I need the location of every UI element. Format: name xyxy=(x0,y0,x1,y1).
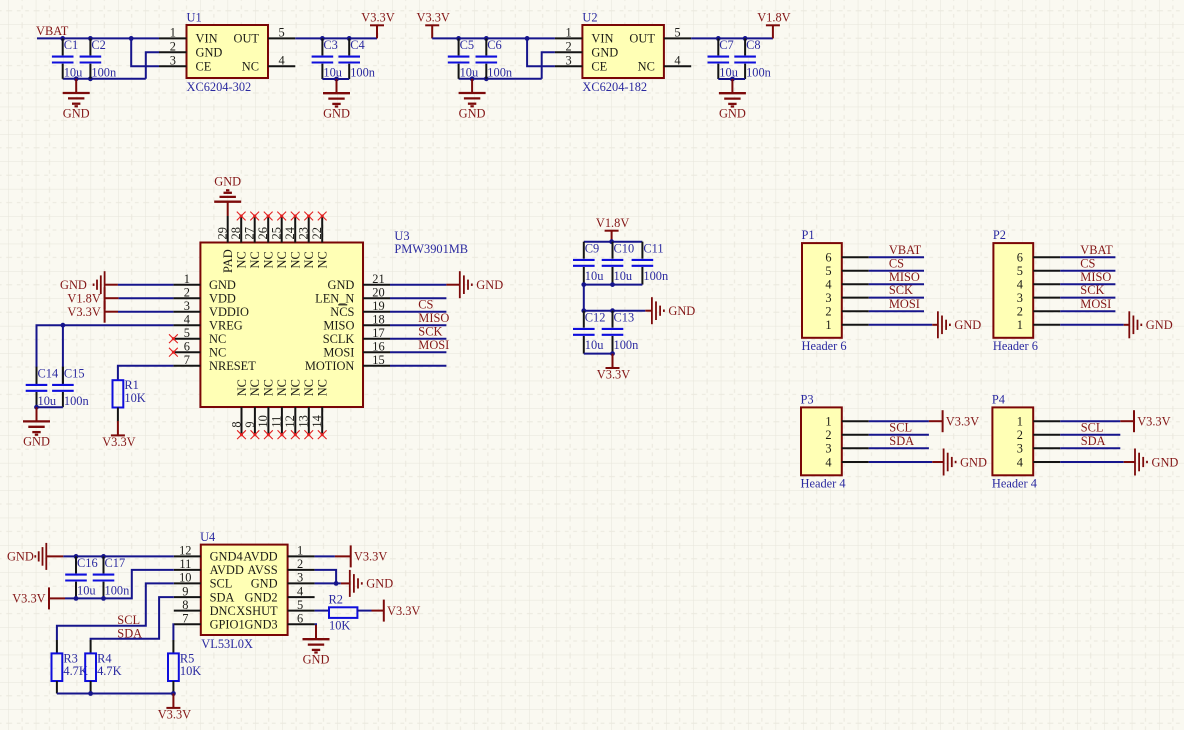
ground GND at P4 xyxy=(1124,449,1179,476)
svg-text:4: 4 xyxy=(278,54,284,68)
capacitor C8 100n xyxy=(734,38,771,80)
svg-text:27: 27 xyxy=(243,227,257,239)
svg-text:GND: GND xyxy=(7,550,34,564)
junction GND node xyxy=(334,581,339,586)
svg-text:10u: 10u xyxy=(460,66,479,80)
no-ERC marker pin 5 xyxy=(169,334,178,343)
svg-text:NC: NC xyxy=(248,251,262,268)
wire U3 LEN_N xyxy=(390,297,446,299)
svg-text:CS: CS xyxy=(418,298,433,312)
junction C4 top xyxy=(347,36,352,41)
wire net MOSI at P1 xyxy=(869,310,924,312)
junction C16 bottom xyxy=(74,596,79,601)
svg-text:V3.3V: V3.3V xyxy=(12,592,45,606)
svg-text:SCL: SCL xyxy=(889,420,912,434)
ground GND under U4 xyxy=(303,625,330,667)
wire net MOSI xyxy=(390,351,446,353)
P3 pin 2 xyxy=(825,428,868,442)
connector P1 Header 6 xyxy=(802,228,847,353)
svg-text:3: 3 xyxy=(565,54,571,68)
svg-text:1: 1 xyxy=(825,415,831,429)
net label SCL xyxy=(117,613,140,627)
junction GND rail left xyxy=(581,308,586,313)
connector P4 Header 4 xyxy=(992,392,1037,490)
net label MOSI xyxy=(418,338,449,352)
U3 pin 5 xyxy=(173,326,200,340)
net label VBAT xyxy=(1080,243,1113,257)
U2 pin 1 xyxy=(555,26,583,40)
junction C6 bottom xyxy=(484,76,489,81)
svg-text:4: 4 xyxy=(825,455,831,469)
svg-text:SCL: SCL xyxy=(1081,420,1104,434)
wire net SCK at P2 xyxy=(1060,297,1115,299)
svg-text:2: 2 xyxy=(825,305,831,319)
wire U3 pin 21 GND xyxy=(390,284,446,286)
power port V3.3V xyxy=(1120,410,1170,432)
IC U1 XC6204-302 xyxy=(187,11,269,94)
resistor R4 4.7K xyxy=(85,651,121,681)
junction R5 bottom xyxy=(171,691,176,696)
no-ERC marker pin 6 xyxy=(169,348,178,357)
net label MISO xyxy=(1080,270,1111,284)
svg-text:5: 5 xyxy=(297,598,303,612)
svg-text:C17: C17 xyxy=(105,556,126,570)
svg-text:SDA: SDA xyxy=(889,434,914,448)
capacitor C17 100n xyxy=(93,556,130,598)
U4 pin 2 xyxy=(288,557,315,571)
svg-text:1: 1 xyxy=(184,272,190,286)
capacitor C2 100n xyxy=(80,38,117,80)
P4 pin 3 xyxy=(1017,442,1060,456)
svg-text:5: 5 xyxy=(674,26,680,40)
svg-text:XSHUT: XSHUT xyxy=(236,604,278,618)
U4 pin 9 xyxy=(174,584,201,598)
capacitor C3 10u xyxy=(312,38,342,80)
junction C13 top xyxy=(610,308,615,313)
U2 pin 4 xyxy=(664,54,691,68)
wire U4 pin 1 xyxy=(315,555,335,557)
svg-text:10: 10 xyxy=(179,571,191,585)
power port V3.3V xyxy=(929,410,979,432)
U3 pin 18 xyxy=(363,312,390,326)
svg-text:NC: NC xyxy=(262,379,276,396)
svg-text:2: 2 xyxy=(565,40,571,54)
connector P3 Header 4 xyxy=(801,392,846,490)
junction C17 bottom xyxy=(101,596,106,601)
svg-text:10K: 10K xyxy=(329,618,350,632)
U3 pin 16 xyxy=(363,339,390,353)
capacitor C9 10u xyxy=(573,241,603,284)
U4 pin 10 xyxy=(174,571,201,585)
junction C6 top xyxy=(484,36,489,41)
svg-text:13: 13 xyxy=(297,415,311,427)
svg-text:SCK: SCK xyxy=(1080,283,1104,297)
svg-text:11: 11 xyxy=(179,557,191,571)
svg-text:NC: NC xyxy=(209,345,226,359)
svg-text:C10: C10 xyxy=(614,241,635,255)
svg-text:100n: 100n xyxy=(614,338,639,352)
svg-text:20: 20 xyxy=(372,285,384,299)
U3 pin 26 xyxy=(256,216,276,269)
net label SDA xyxy=(1081,434,1106,448)
wire U3 VREG to C14 xyxy=(37,325,174,385)
capacitor C13 100n xyxy=(602,310,639,353)
U4 pin 11 xyxy=(174,557,201,571)
svg-text:1: 1 xyxy=(297,544,303,558)
svg-text:C16: C16 xyxy=(77,556,98,570)
wire U4 AVSS to GND xyxy=(315,570,337,584)
svg-text:100n: 100n xyxy=(350,66,375,80)
svg-text:C11: C11 xyxy=(643,241,663,255)
svg-text:VIN: VIN xyxy=(591,32,613,46)
svg-text:6: 6 xyxy=(184,339,190,353)
svg-text:GND: GND xyxy=(323,107,350,121)
wire net VBAT at P1 xyxy=(869,256,924,258)
svg-text:8: 8 xyxy=(182,598,188,612)
svg-text:9: 9 xyxy=(182,584,188,598)
wire net SCK xyxy=(390,338,446,340)
junction C16 top xyxy=(74,554,79,559)
wire output ground rail xyxy=(718,78,745,80)
svg-text:V3.3V: V3.3V xyxy=(354,550,387,564)
U3 pin 8 xyxy=(229,379,249,435)
svg-text:SCK: SCK xyxy=(889,283,913,297)
svg-text:NC: NC xyxy=(235,379,249,396)
wire SCL net xyxy=(57,583,174,640)
svg-text:V1.8V: V1.8V xyxy=(67,292,100,306)
svg-text:MISO: MISO xyxy=(889,270,920,284)
svg-text:V3.3V: V3.3V xyxy=(597,367,630,381)
U3 pin 11 xyxy=(270,379,290,435)
junction C15 branch xyxy=(61,323,66,328)
svg-text:10: 10 xyxy=(256,415,270,427)
ground GND at P2 xyxy=(1124,311,1173,338)
U3 pin 14 xyxy=(310,379,330,435)
svg-text:100n: 100n xyxy=(643,269,668,283)
U3 pin 10 xyxy=(256,379,276,435)
power port V3.3V xyxy=(67,301,118,323)
P2 pin 5 xyxy=(1017,264,1060,278)
capacitor C6 100n xyxy=(476,38,513,80)
svg-text:C1: C1 xyxy=(64,38,78,52)
svg-text:11: 11 xyxy=(270,416,284,428)
svg-text:VIN: VIN xyxy=(196,32,218,46)
svg-text:C4: C4 xyxy=(350,38,364,52)
svg-text:12: 12 xyxy=(179,544,191,558)
wire ground rail xyxy=(459,78,542,80)
wire P4 pin 4 GND xyxy=(1060,461,1124,463)
capacitor C12 10u xyxy=(573,310,605,353)
U3 pin 2 xyxy=(173,285,200,299)
wire VBAT to U1 pin 1 xyxy=(37,37,159,39)
net label MISO xyxy=(889,270,920,284)
wire U2 OUT to V1.8V xyxy=(691,37,773,39)
U4 pin 12 xyxy=(174,544,201,558)
junction ground rail xyxy=(470,76,475,81)
junction C8 top xyxy=(743,36,748,41)
no-ERC marker pin 24 xyxy=(291,212,300,221)
svg-text:6: 6 xyxy=(1017,251,1023,265)
resistor R5 10K xyxy=(168,651,201,681)
svg-text:3: 3 xyxy=(297,571,303,585)
svg-text:OUT: OUT xyxy=(234,32,260,46)
R3 upper lead xyxy=(56,640,58,653)
svg-text:V1.8V: V1.8V xyxy=(596,216,629,230)
P4 pin 1 xyxy=(1017,415,1060,429)
svg-text:GND: GND xyxy=(366,577,393,591)
svg-text:MOSI: MOSI xyxy=(418,338,449,352)
wire U4 XSHUT to R2 xyxy=(315,610,329,612)
U3 pin 17 xyxy=(363,326,390,340)
svg-text:P1: P1 xyxy=(802,228,815,242)
net label SCK xyxy=(889,283,913,297)
svg-text:GPIO1: GPIO1 xyxy=(210,618,245,632)
svg-text:GND: GND xyxy=(591,46,618,60)
IC U4 VL53L0X xyxy=(200,530,288,651)
svg-text:5: 5 xyxy=(825,264,831,278)
wire V3.3V to U4 AVDD pin 11 xyxy=(65,570,174,599)
svg-text:SCLK: SCLK xyxy=(323,332,355,346)
svg-text:1: 1 xyxy=(170,26,176,40)
svg-text:GND: GND xyxy=(63,106,90,120)
wire net MISO at P1 xyxy=(869,283,924,285)
resistor R3 4.7K xyxy=(52,651,88,681)
svg-text:VBAT: VBAT xyxy=(889,243,922,257)
svg-text:2: 2 xyxy=(1017,428,1023,442)
ground GND under C7/C8 xyxy=(719,79,746,121)
svg-text:16: 16 xyxy=(372,339,384,353)
svg-text:P4: P4 xyxy=(992,392,1005,406)
ground GND mid bank xyxy=(645,297,695,324)
power port V3.3V xyxy=(335,545,387,567)
R5 upper lead xyxy=(172,640,174,653)
svg-text:GND: GND xyxy=(960,455,987,469)
svg-text:29: 29 xyxy=(216,227,230,239)
junction C1 top xyxy=(60,36,65,41)
U3 pin 4 xyxy=(173,312,200,326)
svg-text:12: 12 xyxy=(283,415,297,427)
svg-text:10u: 10u xyxy=(38,394,57,408)
power port V3.3V xyxy=(361,11,394,39)
no-ERC marker pin 23 xyxy=(304,212,313,221)
U4 pin 7 xyxy=(174,612,201,626)
ground GND under C5/C6 xyxy=(459,79,486,121)
net label CS xyxy=(889,256,904,270)
net label SCK xyxy=(1080,283,1104,297)
no-ERC marker pin 25 xyxy=(277,212,286,221)
wire net MISO at P2 xyxy=(1060,283,1115,285)
net label MISO xyxy=(418,311,449,325)
resistor R1 10K xyxy=(113,378,146,407)
junction mid rail left xyxy=(581,282,586,287)
wire V3.3V rail xyxy=(584,353,613,355)
svg-text:MOSI: MOSI xyxy=(1080,297,1111,311)
net label MOSI xyxy=(889,297,920,311)
U1 pin 1 xyxy=(159,26,187,40)
wire down to C15 xyxy=(62,325,64,385)
svg-text:V1.8V: V1.8V xyxy=(757,11,790,25)
net label SDA xyxy=(117,627,142,641)
svg-text:GND4: GND4 xyxy=(210,550,243,564)
U3 pin 23 xyxy=(297,216,317,269)
svg-text:U1: U1 xyxy=(187,11,202,25)
wire SDA net xyxy=(91,597,174,640)
junction at CE branch xyxy=(525,36,530,41)
wire net SCK at P1 xyxy=(869,297,924,299)
R4 upper lead xyxy=(90,640,92,653)
no-ERC marker pin 9 xyxy=(251,430,260,439)
wire GND to U3 pin 1 xyxy=(118,284,173,286)
wire net VBAT at P2 xyxy=(1060,256,1115,258)
svg-text:GND: GND xyxy=(668,304,695,318)
no-ERC marker pin 26 xyxy=(264,212,273,221)
wire C14-C15 ground rail xyxy=(37,406,63,408)
svg-text:NC: NC xyxy=(262,251,276,268)
svg-text:CE: CE xyxy=(591,60,607,74)
svg-text:SDA: SDA xyxy=(117,627,142,641)
svg-text:19: 19 xyxy=(372,299,384,313)
svg-text:VL53L0X: VL53L0X xyxy=(201,637,253,651)
wire U2 GND pin 2 down xyxy=(542,52,555,79)
wire net MOSI at P2 xyxy=(1060,310,1115,312)
U3 pin 27 xyxy=(243,216,263,269)
svg-text:7: 7 xyxy=(184,353,190,367)
U3 pin 28 xyxy=(229,216,249,269)
svg-text:XC6204-302: XC6204-302 xyxy=(187,80,252,94)
svg-text:V3.3V: V3.3V xyxy=(387,604,420,618)
ground GND under C3/C4 xyxy=(323,79,350,121)
U2 pin 5 xyxy=(664,26,691,40)
svg-text:C7: C7 xyxy=(719,38,733,52)
svg-text:23: 23 xyxy=(297,227,311,239)
capacitor C15 100n xyxy=(52,366,89,408)
svg-text:18: 18 xyxy=(372,312,384,326)
wire net MISO xyxy=(390,324,446,326)
U3 pin 21 xyxy=(363,272,390,286)
svg-text:1: 1 xyxy=(1017,415,1023,429)
svg-text:9: 9 xyxy=(243,421,257,427)
junction C3 top xyxy=(320,36,325,41)
U3 pin 12 xyxy=(283,379,303,435)
svg-text:5: 5 xyxy=(184,326,190,340)
svg-text:LEN_N: LEN_N xyxy=(315,291,354,305)
R3 lower lead xyxy=(56,681,58,694)
wire down to GND rail xyxy=(583,285,585,311)
svg-text:NC: NC xyxy=(316,251,330,268)
svg-text:MISO: MISO xyxy=(1080,270,1111,284)
wire V3.3V to U3 pin 3 xyxy=(118,311,173,313)
net label VBAT xyxy=(36,24,69,38)
svg-text:21: 21 xyxy=(372,272,384,286)
svg-text:SDA: SDA xyxy=(1081,434,1106,448)
svg-text:10K: 10K xyxy=(180,664,201,678)
capacitor C10 10u xyxy=(602,241,634,284)
P1 pin 2 xyxy=(825,305,868,319)
svg-text:NC: NC xyxy=(235,251,249,268)
power port V3.3V xyxy=(158,694,191,722)
capacitor C4 100n xyxy=(338,38,375,80)
R5 lower lead xyxy=(172,681,174,694)
svg-text:C12: C12 xyxy=(585,310,606,324)
ground GND at U3 pin 21 xyxy=(446,271,503,298)
junction output ground rail xyxy=(730,77,735,82)
svg-text:10K: 10K xyxy=(124,391,145,405)
svg-text:CS: CS xyxy=(1080,256,1095,270)
wire V1.8V rail xyxy=(584,241,643,243)
junction C7 top xyxy=(716,36,721,41)
P2 pin 6 xyxy=(1017,251,1060,265)
junction C17 top xyxy=(101,554,106,559)
svg-text:2: 2 xyxy=(170,40,176,54)
P4 pin 2 xyxy=(1017,428,1060,442)
U3 pin 25 xyxy=(270,216,290,269)
U4 pin 1 xyxy=(288,544,315,558)
wire to U1 CE pin 3 xyxy=(131,38,159,66)
svg-text:VREG: VREG xyxy=(209,318,243,332)
svg-text:MOSI: MOSI xyxy=(323,345,354,359)
svg-text:GND: GND xyxy=(303,653,330,667)
svg-text:24: 24 xyxy=(283,227,297,239)
U3 pin 24 xyxy=(283,216,303,269)
svg-text:NC: NC xyxy=(275,379,289,396)
connector P2 Header 6 xyxy=(993,228,1038,353)
svg-text:28: 28 xyxy=(229,227,243,239)
ground GND above U3 xyxy=(214,175,241,217)
P1 pin 3 xyxy=(825,291,868,305)
svg-text:NC: NC xyxy=(289,251,303,268)
U3 pin 20 xyxy=(363,285,390,299)
svg-text:14: 14 xyxy=(310,415,324,427)
net label SCL xyxy=(1081,420,1104,434)
IC U2 XC6204-182 xyxy=(582,11,664,94)
svg-text:Header 4: Header 4 xyxy=(801,476,846,490)
svg-text:SCK: SCK xyxy=(418,325,442,339)
svg-text:GND: GND xyxy=(328,278,355,292)
junction C10 bottom xyxy=(610,282,615,287)
svg-text:SDA: SDA xyxy=(210,590,235,604)
svg-text:C3: C3 xyxy=(323,38,337,52)
P1 pin 6 xyxy=(825,251,868,265)
U3 pin 22 xyxy=(310,216,330,269)
svg-text:100n: 100n xyxy=(64,394,89,408)
svg-text:NCS: NCS xyxy=(330,305,354,319)
svg-text:GND: GND xyxy=(954,318,981,332)
svg-text:GND: GND xyxy=(1146,318,1173,332)
power port V3.3V xyxy=(597,354,630,382)
svg-text:26: 26 xyxy=(256,227,270,239)
svg-text:V3.3V: V3.3V xyxy=(1137,415,1170,429)
wire U3 MOTION xyxy=(390,365,446,367)
U4 pin 3 xyxy=(288,571,315,585)
svg-text:GND: GND xyxy=(60,278,87,292)
svg-text:100n: 100n xyxy=(746,66,771,80)
svg-text:10u: 10u xyxy=(585,338,604,352)
svg-text:5: 5 xyxy=(1017,264,1023,278)
svg-text:V3.3V: V3.3V xyxy=(158,707,191,721)
svg-text:GND: GND xyxy=(1152,455,1179,469)
wire net CS at P1 xyxy=(869,270,924,272)
svg-text:V3.3V: V3.3V xyxy=(361,11,394,25)
svg-text:GND: GND xyxy=(719,107,746,121)
power port V3.3V xyxy=(372,600,421,622)
svg-text:2: 2 xyxy=(297,557,303,571)
P1 pin 4 xyxy=(825,278,868,292)
svg-text:NC: NC xyxy=(302,379,316,396)
ground GND at U4 pin 3 xyxy=(341,570,393,597)
no-ERC marker pin 28 xyxy=(237,212,246,221)
svg-text:4: 4 xyxy=(297,584,303,598)
wire net SDA at P4 xyxy=(1060,447,1120,449)
